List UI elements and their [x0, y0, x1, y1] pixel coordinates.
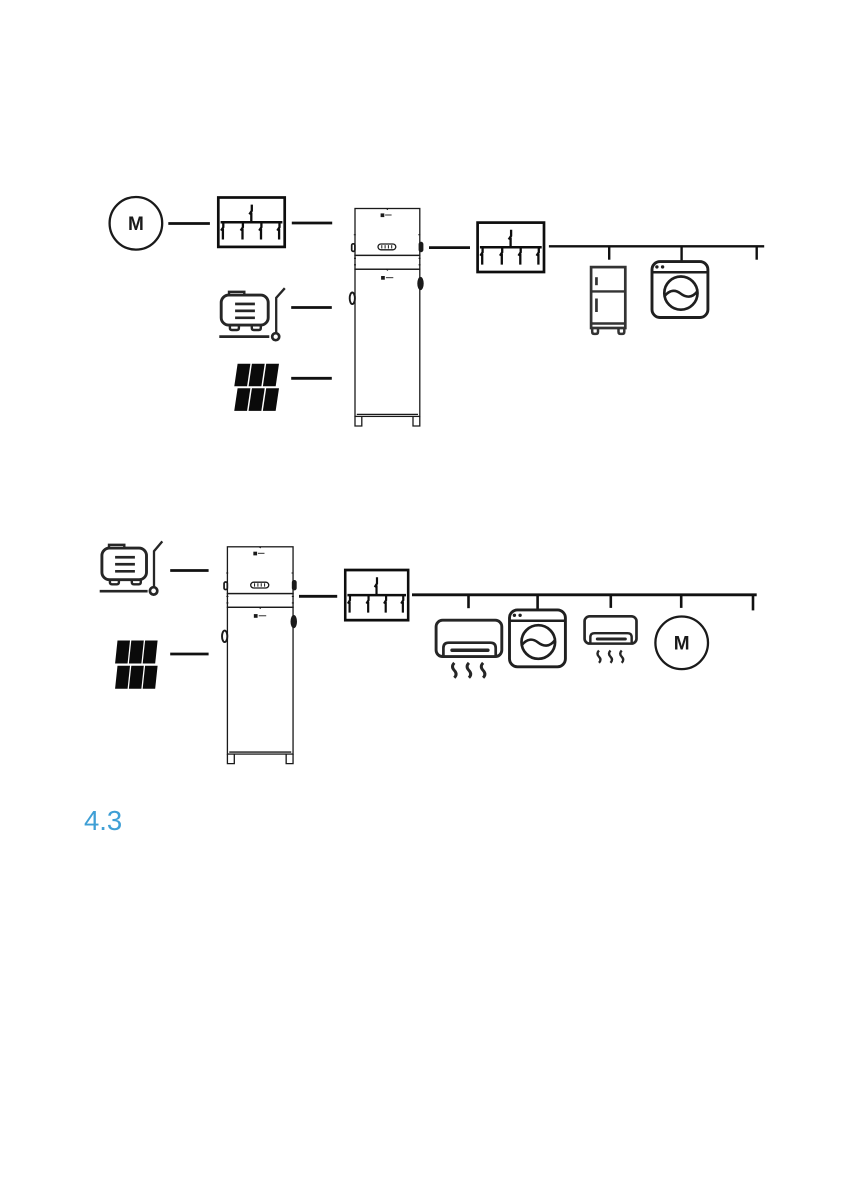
inverter U1 with battery cabinet — [350, 209, 424, 427]
breaker feeder 3 — [384, 595, 386, 613]
breaker feeder 2 — [241, 222, 243, 239]
svg-text:M: M — [128, 214, 144, 235]
bus bar — [347, 594, 406, 597]
wire generator G1 to inverter 1 — [291, 306, 332, 309]
breaker feeder 1 — [480, 247, 482, 264]
air conditioner load 2 — [585, 616, 637, 663]
bus 2 tap to washer 2 — [536, 595, 539, 609]
breaker feeder 3 — [259, 222, 261, 239]
air conditioner load 1 — [436, 620, 502, 678]
washing machine load 1 — [652, 262, 708, 318]
bus 2 tap to motor M2 — [680, 595, 683, 608]
motor M2 load — [655, 617, 708, 670]
distribution box B (load breaker panel) — [478, 223, 544, 272]
wire M1 to distribution box A — [168, 222, 210, 225]
fridge load — [591, 267, 625, 334]
bus 2 spare tap — [752, 595, 755, 611]
generator G1 (portable genset on cart) — [219, 288, 284, 340]
wire solar PV1 to inverter 1 — [291, 377, 332, 380]
solar array PV2 — [115, 641, 158, 689]
breaker feeder 3 — [519, 247, 521, 264]
distribution box C (load breaker panel) — [345, 570, 408, 620]
bus 2 tap to air conditioner 1 — [467, 595, 470, 608]
breaker feeder 2 — [366, 595, 368, 613]
generator G2 (portable genset on cart) — [100, 541, 163, 594]
bus bar — [480, 246, 542, 249]
AC load bus 2 — [412, 593, 757, 596]
bus 1 tap to fridge — [608, 246, 610, 259]
wire box A to inverter 1 — [292, 222, 332, 225]
bus bar — [221, 221, 283, 224]
svg-text:M: M — [674, 634, 690, 655]
wire inverter 1 to distribution box B — [429, 246, 470, 249]
solar array PV1 — [234, 364, 279, 411]
breaker main — [249, 205, 251, 223]
breaker feeder 4 — [277, 222, 279, 239]
breaker feeder 1 — [221, 222, 223, 239]
wire generator G2 to inverter 2 — [170, 569, 208, 572]
breaker feeder 4 — [401, 595, 403, 613]
distribution box A (AC breaker panel) — [218, 198, 284, 247]
wire inverter 2 to distribution box C — [299, 595, 337, 598]
AC load bus 1 — [549, 245, 764, 247]
breaker feeder 4 — [537, 247, 539, 264]
inverter U2 with battery cabinet — [222, 547, 296, 764]
breaker feeder 2 — [500, 247, 502, 264]
washing machine load 2 — [510, 610, 566, 667]
svg-text:4.3: 4.3 — [84, 805, 122, 836]
bus 2 tap to air conditioner 2 — [609, 595, 612, 608]
breaker main — [375, 577, 377, 595]
motor M1 (grid/motor symbol) — [110, 197, 163, 250]
breaker main — [509, 230, 511, 248]
wire solar PV2 to inverter 2 — [170, 653, 208, 656]
bus 1 spare tap — [756, 246, 758, 259]
breaker feeder 1 — [348, 595, 350, 613]
bus 1 tap to washer — [680, 246, 682, 261]
